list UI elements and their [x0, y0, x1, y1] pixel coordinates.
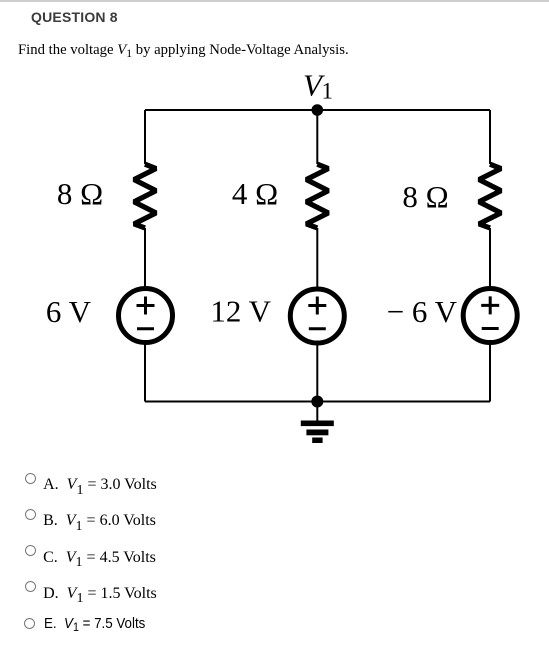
plus sign 6V	[137, 297, 155, 315]
resistor R2 4ohm	[306, 164, 328, 228]
ground	[301, 402, 334, 444]
wire left-bottom	[144, 343, 146, 402]
wire left-mid	[144, 228, 146, 288]
svg-text:− 6 V: − 6 V	[387, 294, 458, 329]
svg-text:4 Ω: 4 Ω	[232, 176, 278, 211]
wire right-mid	[489, 228, 491, 288]
option D	[25, 581, 36, 592]
node A (top V1 junction dot)	[312, 104, 324, 116]
source V 12V circle	[290, 289, 344, 343]
wire mid-top	[316, 110, 318, 164]
svg-text:8 Ω: 8 Ω	[402, 179, 448, 214]
minus sign 12V	[309, 327, 326, 330]
source V -6V circle	[463, 289, 517, 343]
option A	[25, 473, 36, 484]
option E	[24, 618, 35, 629]
option B	[25, 509, 36, 520]
wire right-top	[489, 110, 491, 164]
resistor R1 8ohm	[134, 164, 156, 228]
resistor R3 8ohm	[479, 164, 501, 228]
svg-text:12 V: 12 V	[210, 294, 271, 329]
wire top	[145, 109, 490, 111]
wire mid-mid	[316, 228, 318, 288]
plus sign 12V	[308, 297, 326, 315]
wire left-top	[144, 110, 146, 164]
minus sign -6V	[482, 327, 499, 330]
minus sign 6V	[137, 327, 154, 330]
wire right-bottom	[489, 343, 491, 402]
source V 6V circle	[119, 289, 173, 343]
svg-text:8 Ω: 8 Ω	[57, 176, 103, 211]
svg-text:6 V: 6 V	[46, 294, 92, 329]
plus sign -6V	[481, 296, 499, 314]
svg-text:1: 1	[322, 79, 334, 104]
wire bottom	[145, 401, 490, 403]
node V1 label	[303, 67, 333, 103]
option C	[25, 545, 36, 556]
header bar	[0, 0, 549, 2]
wire mid-bottom	[316, 343, 318, 402]
node B (bottom ground junction dot)	[311, 396, 323, 408]
